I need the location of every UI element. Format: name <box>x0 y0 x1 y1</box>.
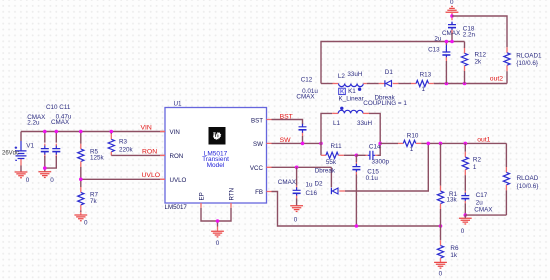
svg-text:out1: out1 <box>477 137 490 144</box>
wire FB <box>272 192 441 227</box>
node junction C13/out2 <box>445 82 449 86</box>
svg-text:R13: R13 <box>420 72 432 79</box>
resistor R2 <box>462 143 481 175</box>
svg-text:RLOAD1: RLOAD1 <box>516 53 542 60</box>
svg-text:CMAX: CMAX <box>296 94 315 101</box>
capacitor C16 <box>278 167 318 206</box>
wire C17 to RLOAD bottom <box>465 215 506 218</box>
node junction C13/top rail <box>445 40 449 44</box>
svg-text:Dbreak: Dbreak <box>315 168 336 175</box>
svg-text:0: 0 <box>294 216 298 223</box>
svg-text:out2: out2 <box>490 75 503 82</box>
svg-text:RLOAD: RLOAD <box>517 175 539 182</box>
node junction R12/out2 <box>463 82 467 86</box>
source V1 <box>2 132 34 166</box>
capacitor C17 <box>461 175 493 215</box>
wire out1 rail <box>421 142 506 144</box>
ground R7 <box>74 215 87 221</box>
ground R6 <box>434 262 447 268</box>
resistor R12 <box>461 42 486 84</box>
svg-text:1k: 1k <box>450 252 458 259</box>
svg-text:33uH: 33uH <box>357 120 373 127</box>
diode D2 <box>315 167 346 194</box>
svg-text:CMAX: CMAX <box>278 179 297 186</box>
svg-text:L1: L1 <box>333 120 341 127</box>
svg-text:K1: K1 <box>348 88 356 95</box>
svg-text:LM5017: LM5017 <box>165 204 188 211</box>
resistor RLOAD1 <box>504 47 542 83</box>
svg-text:SW: SW <box>280 137 292 144</box>
svg-text:FB: FB <box>255 189 263 196</box>
svg-text:L2: L2 <box>338 73 346 80</box>
svg-text:VCC: VCC <box>250 165 264 172</box>
svg-text:SW: SW <box>253 141 263 148</box>
svg-text:2.2u: 2.2u <box>27 120 40 127</box>
node junction C10/C11 gnd <box>43 166 47 170</box>
svg-text:1u: 1u <box>306 182 314 189</box>
svg-text:R3: R3 <box>119 139 128 146</box>
ground top (inverted) <box>446 7 459 13</box>
node junction R5/VIN rail <box>79 130 83 134</box>
svg-text:D1: D1 <box>385 69 394 76</box>
ground C17 <box>459 218 472 224</box>
wire V1 to ground <box>20 166 22 173</box>
svg-text:{10/0.6}: {10/0.6} <box>516 60 538 67</box>
resistor R13 <box>398 72 433 93</box>
svg-text:RON: RON <box>142 149 157 156</box>
wire EP/RTN to ground <box>201 208 231 227</box>
resistor RLOAD <box>503 143 538 215</box>
node junction R2/out1 <box>464 142 468 146</box>
wire out2 rail <box>434 83 507 85</box>
svg-text:C10 C11: C10 C11 <box>46 104 71 111</box>
svg-text:55k: 55k <box>326 159 337 166</box>
svg-text:220k: 220k <box>119 147 134 154</box>
svg-text:C17: C17 <box>476 192 488 199</box>
svg-text:7k: 7k <box>90 198 98 205</box>
svg-text:2.2n: 2.2n <box>463 31 476 38</box>
wire VIN rail <box>21 131 165 133</box>
node junction L1/R11/SW <box>319 142 323 146</box>
capacitor C13 <box>428 30 461 84</box>
ground V1 <box>15 172 28 178</box>
wire VCC rail <box>272 166 332 168</box>
svg-text:UVLO: UVLO <box>142 172 161 179</box>
capacitor C18 <box>448 16 476 42</box>
pin stubs <box>160 120 272 208</box>
capacitor C15 <box>352 155 379 226</box>
node junction R1/out1 <box>439 142 443 146</box>
node junction C11/VIN rail <box>55 130 59 134</box>
node junction D2 branch/out1 <box>427 142 431 146</box>
wire SW rail <box>272 142 322 144</box>
svg-text:0.1u: 0.1u <box>366 175 379 182</box>
svg-text:CMAX: CMAX <box>474 207 493 214</box>
svg-text:R11: R11 <box>331 143 343 150</box>
node junction R1/R6/FB rail <box>439 224 443 228</box>
secondary loop: wire left riser and top rail <box>321 42 465 84</box>
node junction top gnd/C18 <box>450 14 454 18</box>
capacitor C11 <box>45 132 61 169</box>
svg-text:EP: EP <box>199 192 206 200</box>
node junction L1/C14/R10 <box>378 142 382 146</box>
node junction C17/RLOAD/gnd <box>464 213 468 217</box>
svg-text:C13: C13 <box>428 47 440 54</box>
svg-text:0: 0 <box>50 177 54 184</box>
svg-text:1: 1 <box>473 164 477 171</box>
node junction R5/R7/UVLO <box>79 178 83 182</box>
node junction R3/VIN rail <box>110 130 114 134</box>
node junction C16/VCC <box>295 166 299 170</box>
resistor R3 <box>108 132 133 156</box>
resistor R5 <box>78 132 105 180</box>
svg-text:0: 0 <box>26 177 30 184</box>
ground U1 <box>211 231 224 237</box>
wire UVLO <box>81 178 165 180</box>
wire D2 anode to out1 <box>345 143 428 191</box>
svg-text:0: 0 <box>450 0 454 6</box>
ground C16 <box>290 206 303 212</box>
svg-text:RTN: RTN <box>229 188 236 201</box>
svg-text:C12: C12 <box>301 77 313 84</box>
inductor L2 <box>321 71 379 91</box>
inductor L1 <box>321 107 380 144</box>
svg-text:Dbreak: Dbreak <box>375 95 396 102</box>
capacitor C12 (bootstrap) <box>296 77 318 144</box>
svg-text:U1: U1 <box>174 100 183 107</box>
svg-text:3300p: 3300p <box>372 158 390 165</box>
node junction C12/SW <box>301 142 305 146</box>
node junction R11/C14/C15 <box>355 154 359 158</box>
svg-text:2u: 2u <box>434 36 442 43</box>
svg-text:0: 0 <box>84 219 88 226</box>
op-amp U1 LM5017 box <box>160 100 272 211</box>
svg-text:1: 1 <box>422 86 426 93</box>
TI logo U1 <box>209 127 226 145</box>
wire top ground rail to RLOAD1 <box>452 16 507 47</box>
svg-text:33uH: 33uH <box>347 71 363 78</box>
svg-text:R10: R10 <box>407 132 419 139</box>
svg-text:D2: D2 <box>315 181 324 188</box>
svg-text:BST: BST <box>251 117 263 124</box>
wire BST <box>272 120 303 125</box>
svg-text:R6: R6 <box>450 245 459 252</box>
svg-text:{10/0.6}: {10/0.6} <box>517 183 539 190</box>
svg-text:2u: 2u <box>476 199 484 206</box>
resistor R6 <box>437 226 459 262</box>
svg-text:1: 1 <box>410 146 414 153</box>
coupling K1 <box>339 88 408 107</box>
svg-text:VIN: VIN <box>141 125 152 132</box>
svg-text:VIN: VIN <box>170 129 180 136</box>
svg-text:CMAX: CMAX <box>51 119 70 126</box>
svg-text:BST: BST <box>280 113 293 120</box>
wire RON <box>111 154 165 156</box>
svg-text:V1: V1 <box>26 142 34 149</box>
resistor R1 <box>437 143 457 226</box>
svg-text:13k: 13k <box>447 197 458 204</box>
svg-text:2k: 2k <box>475 58 483 65</box>
svg-text:R2: R2 <box>473 157 482 164</box>
svg-text:UVLO: UVLO <box>170 177 187 184</box>
svg-text:0: 0 <box>439 270 443 277</box>
capacitor C14 <box>356 143 389 165</box>
svg-text:RON: RON <box>170 153 184 160</box>
svg-text:0: 0 <box>216 240 220 247</box>
svg-text:C16: C16 <box>306 190 318 197</box>
svg-text:K_Linear: K_Linear <box>339 96 364 103</box>
svg-text:125k: 125k <box>90 155 105 162</box>
node junction C18/top rail <box>450 40 454 44</box>
resistor R7 <box>78 179 99 215</box>
svg-text:Model: Model <box>207 162 225 169</box>
node junction C15/FB rail <box>355 224 359 228</box>
svg-text:26Vdc: 26Vdc <box>2 151 19 157</box>
resistor R10 <box>380 132 421 153</box>
node junction C10/VIN rail <box>43 130 47 134</box>
capacitor C10 <box>41 132 49 172</box>
diode D1 <box>375 69 399 102</box>
svg-text:0: 0 <box>461 228 465 235</box>
node junction EP/RTN <box>216 219 220 223</box>
resistor R11 <box>321 143 356 166</box>
ground C10/C11 <box>38 172 51 178</box>
